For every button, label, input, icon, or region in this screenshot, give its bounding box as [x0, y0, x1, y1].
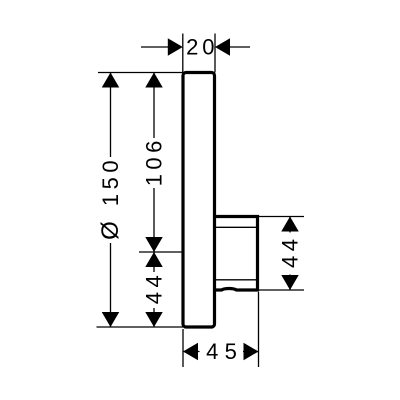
dimension line 45: [183, 351, 259, 353]
svg-text:44: 44: [142, 271, 167, 304]
text halo 20: [186, 36, 214, 58]
dimension line diameter-150: [110, 73, 112, 328]
extension line right-44 bottom: [259, 289, 304, 291]
text halo 44-left: [143, 272, 166, 308]
text halo 106: [143, 138, 166, 188]
extension line right-44 top: [259, 216, 304, 218]
valve body inner detail line upper: [216, 226, 256, 228]
arrowhead 20 left: [168, 38, 183, 56]
arrowhead 106 top: [145, 73, 163, 88]
extension line left bottom: [97, 326, 184, 328]
extension line left middle: [139, 251, 183, 253]
dimension line 106: [153, 73, 155, 253]
arrowhead 45 right: [244, 343, 259, 361]
arrowhead d150 top: [102, 73, 120, 88]
faceplate outline (side view): [183, 73, 215, 328]
arrowhead 44-right bottom: [281, 275, 299, 290]
extension line left top: [98, 72, 183, 74]
dimension line 44-left: [153, 252, 155, 327]
svg-text:44: 44: [278, 235, 303, 268]
dimension line 44-right: [289, 217, 291, 291]
svg-text:150: 150: [98, 156, 123, 206]
arrowhead 44-left bottom: [145, 312, 163, 327]
arrowhead 44-right top: [281, 217, 299, 232]
extension line bottom-45 left: [182, 329, 184, 367]
arrowhead 45 left: [183, 343, 198, 361]
svg-text:106: 106: [142, 136, 167, 186]
extension line top-20 left: [182, 34, 184, 73]
svg-text:Ø: Ø: [97, 221, 124, 240]
arrowhead 20 right: [215, 38, 230, 56]
dimension line 20 right tail: [229, 46, 250, 48]
arrowhead d150 bottom: [102, 312, 120, 327]
dimension line 20 left tail: [141, 46, 169, 48]
valve body protrusion outline: [215, 217, 258, 291]
extension line bottom-45 right: [258, 292, 260, 367]
svg-text:45: 45: [206, 339, 243, 364]
extension line top-20 right: [214, 34, 216, 73]
valve body inner detail line lower: [216, 279, 256, 281]
text halo 45: [200, 341, 244, 362]
svg-text:20: 20: [186, 35, 218, 60]
arrowhead 44-left top (bowtie lower): [145, 252, 163, 267]
text halo 44-right: [279, 233, 301, 275]
arrowhead 106 bottom (bowtie upper): [145, 237, 163, 252]
text halo diameter-150: [99, 157, 122, 243]
